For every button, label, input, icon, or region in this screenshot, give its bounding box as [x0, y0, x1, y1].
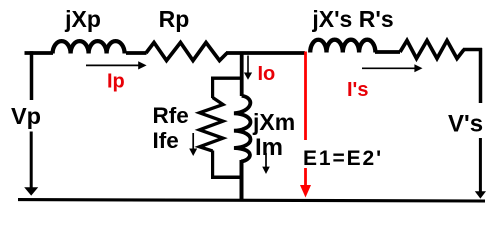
svg-text:Vp: Vp — [11, 103, 41, 129]
inductor jXp — [53, 41, 125, 53]
arrow E1 red (lower segment with head) — [300, 168, 311, 198]
svg-text:jXm: jXm — [252, 109, 295, 135]
svg-text:Ife: Ife — [153, 128, 179, 153]
svg-text:Rp: Rp — [159, 6, 190, 32]
resistor Rp — [146, 43, 227, 61]
svg-text:I's: I's — [347, 79, 368, 101]
right vertical stub wire — [479, 48, 483, 103]
arrow Im down — [262, 153, 270, 174]
arrow Ife down — [189, 133, 197, 156]
svg-text:jXp: jXp — [64, 6, 101, 32]
current arrow Ip — [86, 61, 147, 69]
wire connector top of parallel branch — [211, 76, 241, 79]
svg-text:Im: Im — [255, 134, 283, 161]
wire shunt branch lower — [240, 160, 244, 200]
svg-text:Rfe: Rfe — [153, 103, 189, 128]
arrow E1 red (upper segment) — [304, 52, 307, 141]
svg-text:E1=E2': E1=E2' — [303, 147, 383, 170]
wire Rfe top lead — [211, 78, 214, 98]
current arrow Io — [244, 56, 252, 80]
resistor R's — [400, 41, 464, 59]
current arrow I's — [362, 64, 423, 72]
arrow V's down — [475, 138, 486, 199]
arrow Vp down — [24, 132, 38, 196]
wire R's to right corner — [463, 48, 482, 52]
inductor jX's — [310, 40, 375, 53]
svg-text:jX's R's: jX's R's — [311, 6, 393, 32]
wire top-left segment — [25, 51, 54, 55]
wire between jXp and Rp — [126, 51, 147, 55]
wire connector bottom of parallel branch — [211, 176, 243, 180]
node vertical wire (shunt branch upper) — [240, 52, 244, 96]
wire between jX's and R's — [375, 50, 400, 54]
wire Rp to node and E1 — [226, 51, 305, 55]
wire bottom rail — [18, 200, 485, 201]
wire Rfe bottom lead — [211, 151, 214, 179]
svg-text:Io: Io — [258, 63, 276, 85]
inductor jXm — [234, 96, 251, 162]
resistor Rfe — [200, 98, 224, 152]
left vertical stub wire — [30, 51, 34, 100]
svg-text:Ip: Ip — [107, 71, 125, 93]
svg-text:V's: V's — [448, 111, 483, 138]
